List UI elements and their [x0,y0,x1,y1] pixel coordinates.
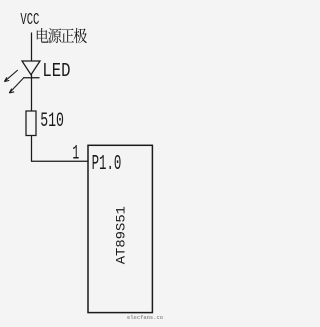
svg-text:LED: LED [42,60,70,82]
svg-text:1: 1 [72,142,79,165]
svg-text:P1.0: P1.0 [92,153,122,176]
svg-text:510: 510 [40,110,64,133]
svg-text:AT89S51: AT89S51 [115,206,129,264]
svg-text:elecfans.com: elecfans.com [127,314,163,321]
svg-text:VCC: VCC [20,11,39,30]
